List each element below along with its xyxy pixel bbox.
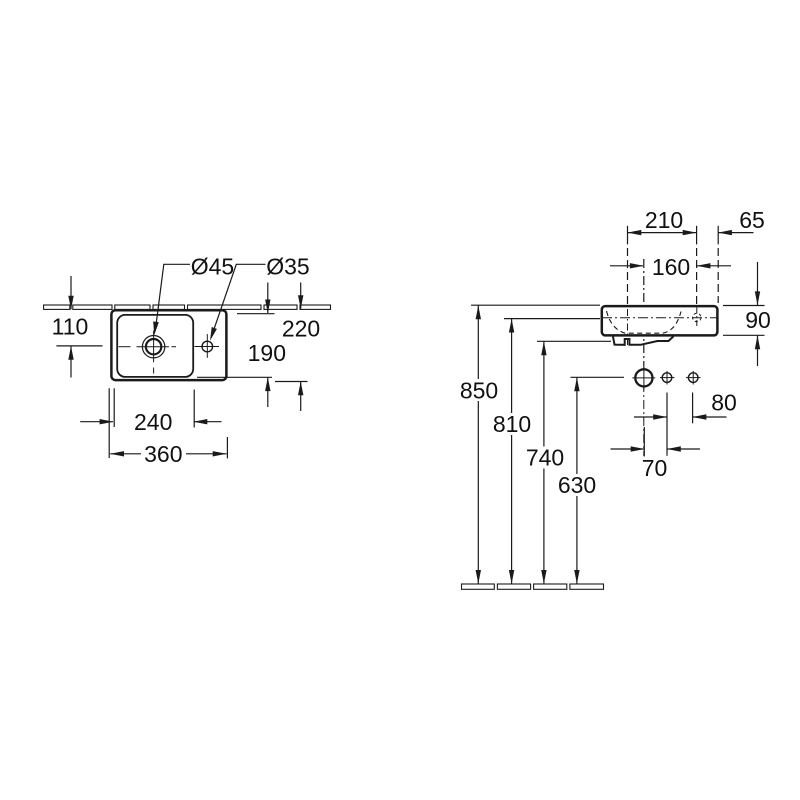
inner bowl bbox=[117, 315, 193, 377]
svg-text:Ø35: Ø35 bbox=[266, 254, 309, 280]
fixing hole right bbox=[688, 373, 698, 383]
dim 190 bbox=[197, 283, 275, 408]
svg-text:210: 210 bbox=[645, 207, 683, 233]
basin outer rect bbox=[111, 310, 226, 380]
dim 630 bbox=[571, 377, 625, 584]
big hole outer circle bbox=[142, 336, 164, 358]
svg-text:90: 90 bbox=[745, 307, 771, 333]
svg-text:160: 160 bbox=[652, 254, 690, 280]
dim 70 bbox=[611, 427, 701, 457]
trap outline bbox=[613, 336, 674, 345]
slot centerline inside basin bbox=[627, 309, 629, 348]
small hole circle bbox=[202, 341, 213, 352]
leaders bbox=[153, 264, 265, 341]
big hole crosshair bbox=[119, 346, 131, 348]
dim 80 bbox=[634, 393, 727, 456]
dim 360 bbox=[110, 437, 227, 458]
dim 240 bbox=[80, 388, 221, 458]
centerline to drain bbox=[643, 366, 645, 456]
dim 90 bbox=[723, 262, 765, 366]
leader O45 bbox=[156, 264, 190, 326]
basin front view bbox=[602, 306, 718, 347]
svg-text:630: 630 bbox=[558, 472, 596, 498]
waterline dash-dot bbox=[602, 317, 717, 319]
leader O35 bbox=[213, 264, 266, 333]
svg-text:80: 80 bbox=[711, 390, 737, 416]
svg-text:740: 740 bbox=[526, 445, 564, 471]
dim 850 bbox=[471, 305, 600, 584]
dim 160 bbox=[610, 263, 731, 268]
fixing hole middle bbox=[662, 373, 672, 383]
svg-text:70: 70 bbox=[642, 455, 668, 481]
drain circle bbox=[632, 367, 700, 390]
ext line x=627.5 dashed bbox=[627, 226, 629, 245]
svg-text:110: 110 bbox=[52, 314, 89, 340]
dim 210 + 65 chain line bbox=[628, 230, 754, 235]
ext line x=696.6 dashed bbox=[696, 226, 698, 245]
svg-text:240: 240 bbox=[134, 409, 172, 435]
dim 110 bbox=[56, 276, 102, 378]
dim 740 bbox=[537, 341, 611, 584]
bowl hidden curve bbox=[607, 311, 682, 333]
svg-text:65: 65 bbox=[739, 207, 765, 233]
wall band planks bbox=[44, 305, 331, 309]
small hole crosshair bbox=[195, 346, 220, 348]
dim 810 bbox=[504, 319, 600, 584]
big hole inner circle bbox=[146, 339, 161, 354]
ext line x=718.2 dashed bbox=[717, 226, 719, 245]
svg-text:Ø45: Ø45 bbox=[191, 254, 234, 280]
floor band planks bbox=[462, 584, 604, 589]
svg-text:850: 850 bbox=[460, 378, 498, 404]
svg-text:360: 360 bbox=[144, 441, 182, 467]
svg-text:220: 220 bbox=[282, 315, 320, 341]
dim 220 bbox=[275, 283, 308, 412]
svg-text:810: 810 bbox=[493, 411, 531, 437]
overflow symbol bbox=[693, 313, 701, 321]
svg-text:190: 190 bbox=[248, 340, 286, 366]
ext line x=643.8 centerline bbox=[643, 259, 645, 366]
